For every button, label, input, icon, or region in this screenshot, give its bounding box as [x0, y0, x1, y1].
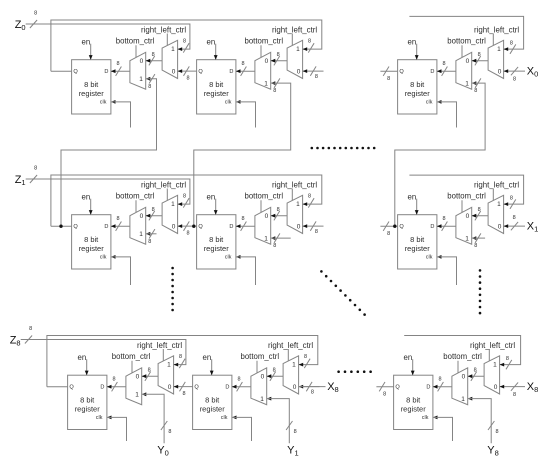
register U11 value label register — [204, 244, 230, 253]
register U88 value label 8 bit — [406, 396, 421, 405]
register U08 value label 8 bit — [410, 80, 425, 89]
mux M01b port label 0 — [265, 58, 269, 65]
wire en 08 — [415, 44, 419, 60]
mux M88r port label 0 — [494, 384, 498, 391]
svg-text:clk: clk — [100, 100, 107, 106]
bus width 8 label on M01r port 0 wire — [315, 74, 318, 80]
bus width 8 label on D wire 80 — [112, 376, 115, 382]
register U00 (8 bit register) — [72, 60, 111, 114]
svg-text:0: 0 — [494, 384, 498, 391]
svg-text:8: 8 — [116, 216, 119, 222]
bottom_ctrl label 08 — [447, 37, 486, 46]
svg-text:1: 1 — [139, 76, 143, 83]
register U80 value label register — [75, 405, 101, 414]
wire clk stub 08 — [437, 100, 457, 128]
mux M00r port label 1 — [171, 46, 175, 53]
svg-text:0: 0 — [140, 213, 144, 220]
en label 18 — [408, 192, 417, 201]
wire Z0 line to M00r port 1 — [51, 24, 190, 53]
register U81 value label 8 bit — [205, 396, 220, 405]
register U80 pin label D — [100, 385, 104, 391]
svg-text:8: 8 — [152, 52, 155, 58]
wire U11 Q to M10r port 0 — [178, 221, 197, 230]
svg-text:8: 8 — [315, 74, 318, 80]
register U10 (8 bit register) — [72, 215, 111, 269]
svg-text:8: 8 — [442, 216, 445, 222]
register U10 pin label D — [104, 224, 108, 230]
svg-text:Q: Q — [198, 69, 203, 75]
bottom_ctrl label 11 — [245, 192, 284, 201]
wire M01r port 0 dangling input — [303, 66, 324, 75]
svg-text:1: 1 — [264, 80, 268, 87]
bus width 8 label on U88 Q wire — [383, 392, 386, 398]
svg-text:bottom_ctrl: bottom_ctrl — [245, 37, 284, 46]
mux right_left_ctrl M81r — [283, 356, 299, 394]
svg-text:en: en — [408, 37, 417, 46]
svg-text:en: en — [207, 37, 216, 46]
wire bottom_ctrl select 08 — [461, 45, 463, 57]
wire Z8 bus with slash — [21, 336, 47, 344]
ellipsis dots vertical (omitted rows, left column) — [171, 267, 174, 312]
wire Z1 bus with slash — [26, 175, 51, 183]
svg-text:0: 0 — [498, 223, 502, 230]
svg-text:8: 8 — [510, 196, 513, 202]
mux M00r port label 0 — [172, 68, 176, 75]
register U01 (8 bit register) — [197, 60, 236, 114]
bus width 8 label on M00b port 1 wire — [148, 84, 151, 90]
mux M00b port label 0 — [140, 58, 144, 65]
bus width 8 label on M88r output wire 88 — [474, 368, 477, 374]
wire bottom_ctrl select 11 — [260, 200, 262, 212]
register U11 value label 8 bit — [209, 235, 224, 244]
wire mux M81b output to D of U81 — [232, 382, 251, 391]
register U00 value label 8 bit — [84, 80, 99, 89]
svg-text:1: 1 — [171, 46, 175, 53]
svg-text:8: 8 — [474, 243, 477, 249]
svg-text:en: en — [78, 353, 87, 362]
bus width 8 label on Q feedback drop row 8 — [304, 354, 307, 360]
ellipsis dots diagonal (omitted diagonal cells) — [320, 270, 366, 316]
en label 08 — [408, 37, 417, 46]
svg-text:register: register — [79, 89, 105, 98]
svg-text:right_left_ctrl: right_left_ctrl — [470, 341, 515, 350]
wire clk stub 80 — [107, 416, 127, 442]
svg-text:8: 8 — [183, 39, 186, 45]
bus width 8 label on M00r output wire 00 — [152, 52, 155, 58]
svg-text:1: 1 — [493, 362, 497, 369]
register U08 (8 bit register) — [398, 60, 437, 114]
bus width 8 label on U08 Q wire — [387, 76, 390, 82]
en label 10 — [82, 192, 91, 201]
svg-text:D: D — [430, 69, 434, 75]
wire en 11 — [214, 199, 218, 215]
svg-text:8: 8 — [315, 229, 318, 235]
register U01 value label 8 bit — [209, 80, 224, 89]
svg-text:8: 8 — [308, 39, 311, 45]
bus width 8 label on M18b port 1 wire — [474, 243, 477, 249]
wire en 80 — [85, 359, 89, 375]
svg-text:right_left_ctrl: right_left_ctrl — [474, 180, 519, 189]
bus width 8 label on D wire 10 — [116, 216, 119, 222]
svg-text:8: 8 — [510, 41, 513, 47]
register U88 pin label D — [426, 385, 430, 391]
mux M01b port label 1 — [264, 80, 268, 87]
mux M81b port label 0 — [261, 374, 265, 381]
svg-text:8: 8 — [34, 165, 37, 171]
register U10 value label 8 bit — [84, 235, 99, 244]
bus width 8 label on Z8 drop — [179, 354, 182, 360]
bus width 8 label on Q feedback drop row 0 — [308, 39, 311, 45]
svg-text:8: 8 — [112, 376, 115, 382]
svg-text:Q: Q — [73, 224, 78, 230]
wire clk stub 81 — [232, 416, 252, 442]
wire bottom_ctrl select 18 — [461, 200, 463, 212]
mux bottom_ctrl M81b — [251, 368, 267, 405]
svg-text:right_left_ctrl: right_left_ctrl — [268, 341, 313, 350]
node X0 input label — [527, 65, 539, 78]
svg-text:8: 8 — [387, 76, 390, 82]
svg-text:D: D — [104, 69, 108, 75]
wire right_left_ctrl select 88 — [488, 349, 490, 361]
mux M80b port label 0 — [136, 374, 140, 381]
node Y1 output label — [287, 445, 299, 458]
svg-text:8: 8 — [148, 239, 151, 245]
bus width 8 label on M01b port 1 wire — [273, 88, 276, 94]
right_left_ctrl label 11 — [272, 180, 317, 189]
wire M88b port 1 to Y8 output — [468, 397, 495, 444]
bus width 8 label on M81r port 0 wire — [311, 390, 314, 396]
mux M18r port label 0 — [498, 223, 502, 230]
wire mux M88b output to D of U88 — [433, 382, 452, 391]
wire M18b port 1 dangling (to omitted row) — [472, 233, 485, 242]
register U18 pin label clk — [426, 255, 433, 261]
bus width 8 label on M10b port 1 wire — [148, 239, 151, 245]
svg-text:8: 8 — [148, 368, 151, 374]
svg-text:8: 8 — [241, 216, 244, 222]
svg-text:8 bit: 8 bit — [84, 235, 99, 244]
wire bottom_ctrl select 88 — [457, 361, 459, 373]
junction dot on U11 Q wire — [192, 225, 195, 228]
svg-text:0: 0 — [466, 58, 470, 65]
bus width 8 label on D wire 01 — [241, 61, 244, 67]
node Y0 output label — [157, 445, 169, 458]
register U08 pin label clk — [426, 100, 433, 106]
svg-text:8: 8 — [495, 429, 498, 435]
svg-text:Q: Q — [399, 224, 404, 230]
bottom_ctrl label 88 — [443, 352, 482, 361]
svg-text:1: 1 — [461, 396, 465, 403]
svg-text:clk: clk — [225, 255, 232, 261]
svg-text:8: 8 — [478, 52, 481, 58]
register U88 pin label Q — [395, 385, 400, 391]
bus width 8 label on M08r output wire 08 — [478, 52, 481, 58]
svg-text:8: 8 — [152, 207, 155, 213]
svg-text:1: 1 — [296, 46, 300, 53]
svg-text:D: D — [426, 385, 430, 391]
svg-text:1: 1 — [260, 396, 264, 403]
wire en 10 — [89, 199, 93, 215]
svg-text:0: 0 — [261, 374, 265, 381]
svg-text:8: 8 — [273, 88, 276, 94]
svg-text:right_left_ctrl: right_left_ctrl — [137, 341, 182, 350]
svg-text:8: 8 — [308, 194, 311, 200]
register U08 pin label Q — [399, 69, 404, 75]
bus width 8 label on Z0 — [34, 10, 37, 16]
bus width 8 label on X0 wire — [513, 76, 516, 82]
mux M18b port label 0 — [466, 213, 470, 220]
svg-text:D: D — [229, 224, 233, 230]
svg-text:8: 8 — [183, 194, 186, 200]
bus width 8 label on U11 Q wire — [186, 231, 189, 237]
svg-text:D: D — [430, 224, 434, 230]
bus width 8 label on right-side line row 8 — [506, 356, 509, 362]
wire mux M88r output to M88b port 0 — [468, 372, 484, 381]
svg-text:8: 8 — [506, 356, 509, 362]
svg-text:8 bit: 8 bit — [80, 396, 95, 405]
mux M10b port label 0 — [140, 213, 144, 220]
wire X8 to M88r port 0 — [500, 382, 525, 390]
register U81 pin label clk — [221, 415, 228, 421]
register U10 pin label Q — [73, 224, 78, 230]
register U01 pin label D — [229, 69, 233, 75]
svg-text:8: 8 — [383, 392, 386, 398]
node Z0 input label — [15, 19, 26, 32]
wire mux M10b output to D of U10 — [111, 222, 130, 231]
svg-text:1: 1 — [139, 231, 143, 238]
mux bottom_ctrl M11b — [255, 207, 271, 244]
svg-text:8: 8 — [513, 215, 516, 221]
mux M88b port label 0 — [462, 374, 466, 381]
svg-text:8 bit: 8 bit — [209, 80, 224, 89]
svg-text:1: 1 — [292, 362, 296, 369]
bus width 8 label on U81 Q wire — [182, 391, 185, 397]
register U00 value label register — [79, 89, 105, 98]
bus width 8 label on D wire 18 — [442, 216, 445, 222]
wire M81b port 1 to Y1 output — [267, 397, 293, 444]
wire en 81 — [210, 359, 214, 375]
wire clk stub 10 — [111, 255, 131, 285]
mux M80r port label 0 — [168, 384, 172, 391]
svg-text:bottom_ctrl: bottom_ctrl — [116, 192, 155, 201]
svg-text:D: D — [225, 385, 229, 391]
register U00 pin label D — [104, 69, 108, 75]
wire mux M11b output to D of U11 — [236, 222, 255, 231]
svg-text:0: 0 — [265, 213, 269, 220]
bus width 8 label on right-side line row 0 — [510, 41, 513, 47]
svg-text:1: 1 — [171, 201, 175, 208]
mux M88r port label 1 — [493, 362, 497, 369]
junction dot on U10 Q wire — [59, 225, 62, 228]
wire M10b port 1 dangling (to omitted row) — [146, 229, 157, 238]
svg-text:8: 8 — [311, 390, 314, 396]
wire M81r port 0 dangling input — [299, 382, 320, 391]
register U80 value label 8 bit — [80, 396, 95, 405]
svg-text:D: D — [104, 224, 108, 230]
right_left_ctrl label 08 — [474, 25, 519, 34]
bottom_ctrl label 81 — [241, 352, 280, 361]
svg-text:bottom_ctrl: bottom_ctrl — [112, 352, 151, 361]
right_left_ctrl label 81 — [268, 341, 313, 350]
mux M08b port label 1 — [465, 80, 469, 87]
mux M00b port label 1 — [139, 76, 143, 83]
wire right-side line row 0 to M08r port 1 — [409, 16, 523, 53]
register U81 pin label Q — [194, 385, 199, 391]
wire mux M00b output to D of U00 — [111, 67, 130, 76]
en label 88 — [404, 353, 413, 362]
register U80 pin label Q — [69, 385, 74, 391]
right_left_ctrl label 88 — [470, 341, 515, 350]
svg-text:0: 0 — [265, 58, 269, 65]
wire clk stub 11 — [236, 255, 256, 285]
svg-text:0: 0 — [168, 384, 172, 391]
wire right_left_ctrl select 00 — [166, 34, 168, 46]
wire clk stub 00 — [111, 100, 131, 128]
bus width 8 label on Z1 — [34, 165, 37, 171]
bus width 8 label on Z0 drop — [183, 39, 186, 45]
svg-text:8: 8 — [478, 207, 481, 213]
mux M80b port label 1 — [135, 392, 139, 399]
svg-text:en: en — [82, 37, 91, 46]
mux bottom_ctrl M88b — [452, 368, 468, 405]
svg-text:8: 8 — [442, 61, 445, 67]
bottom_ctrl label 18 — [447, 192, 486, 201]
bottom_ctrl label 10 — [116, 192, 155, 201]
register U18 value label 8 bit — [410, 235, 425, 244]
wire bottom_ctrl select 00 — [135, 45, 137, 57]
mux M88b port label 1 — [461, 396, 465, 403]
svg-text:8: 8 — [438, 376, 441, 382]
bus width 8 label on Q feedback drop row 1 — [308, 194, 311, 200]
ellipsis dots vertical (omitted rows, right column) — [479, 269, 482, 314]
svg-text:8: 8 — [182, 391, 185, 397]
wire mux M08b output to D of U08 — [437, 67, 456, 76]
svg-text:Q: Q — [73, 69, 78, 75]
svg-text:bottom_ctrl: bottom_ctrl — [443, 352, 482, 361]
svg-text:8: 8 — [179, 354, 182, 360]
svg-text:1: 1 — [497, 46, 501, 53]
wire right_left_ctrl select 01 — [291, 34, 293, 46]
wire X1 to M18r port 0 — [504, 222, 525, 230]
wire M00b port 1 from U10 Q (bottom chain) — [61, 74, 157, 226]
svg-text:8: 8 — [513, 392, 516, 398]
en label 80 — [78, 353, 87, 362]
svg-text:1: 1 — [296, 201, 300, 208]
wire M08b port 1 from U18 Q (bottom chain) — [395, 78, 485, 226]
mux bottom_ctrl M18b — [456, 207, 472, 244]
mux M18b port label 1 — [465, 235, 469, 242]
wire bottom_ctrl select 01 — [260, 45, 262, 57]
wire M01b port 1 from U11 Q (bottom chain) — [194, 78, 291, 226]
wire X0 to M08r port 0 — [504, 67, 525, 75]
bus width 8 label on Y0 wire — [168, 429, 171, 435]
svg-text:bottom_ctrl: bottom_ctrl — [116, 37, 155, 46]
node Z8 input label — [10, 335, 21, 348]
mux M81b port label 1 — [260, 396, 264, 403]
svg-text:8: 8 — [186, 231, 189, 237]
svg-text:en: en — [207, 192, 216, 201]
svg-text:1: 1 — [465, 80, 469, 87]
right_left_ctrl label 18 — [474, 180, 519, 189]
node Z1 input label — [15, 174, 26, 187]
wire Q feedback line row 8 (U80 Q to M81r port 1) — [47, 336, 318, 387]
svg-text:8 bit: 8 bit — [406, 396, 421, 405]
svg-text:clk: clk — [426, 255, 433, 261]
mux M01r port label 0 — [297, 68, 301, 75]
en label 01 — [207, 37, 216, 46]
svg-text:8 bit: 8 bit — [205, 396, 220, 405]
svg-text:register: register — [405, 244, 431, 253]
node Y8 output label — [487, 445, 499, 458]
mux right_left_ctrl M08r — [488, 40, 504, 78]
register U80 pin label clk — [96, 415, 103, 421]
mux right_left_ctrl M11r — [287, 195, 303, 233]
svg-text:D: D — [229, 69, 233, 75]
bus width 8 label on M80r output wire 80 — [148, 368, 151, 374]
register U01 pin label clk — [225, 100, 232, 106]
bus width 8 label on D wire 08 — [442, 61, 445, 67]
wire right_left_ctrl select 08 — [492, 34, 494, 46]
wire Q of U08 dangling — [380, 67, 397, 76]
svg-text:clk: clk — [422, 415, 429, 421]
register U80 (8 bit register) — [68, 375, 107, 429]
svg-text:8 bit: 8 bit — [84, 80, 99, 89]
bus width 8 label on U01 Q wire — [186, 76, 189, 82]
svg-text:register: register — [75, 405, 101, 414]
wire mux M01b output to D of U01 — [236, 67, 255, 76]
svg-text:8: 8 — [304, 354, 307, 360]
svg-text:0: 0 — [172, 68, 176, 75]
register U11 pin label Q — [198, 224, 203, 230]
wire Q of U88 dangling — [376, 382, 393, 391]
node X8 mid label (input to M81r port 0) — [327, 381, 339, 394]
mux right_left_ctrl M88r — [484, 356, 500, 394]
svg-text:D: D — [100, 385, 104, 391]
svg-text:8 bit: 8 bit — [209, 235, 224, 244]
wire Q of U80 — [47, 386, 68, 388]
bus width 8 label on Y1 wire — [294, 429, 297, 435]
wire mux M80b output to D of U80 — [107, 382, 126, 391]
bus width 8 label on D wire 11 — [241, 216, 244, 222]
svg-text:clk: clk — [225, 100, 232, 106]
en label 11 — [207, 192, 216, 201]
svg-text:Q: Q — [395, 385, 400, 391]
svg-text:0: 0 — [498, 68, 502, 75]
bus width 8 label on X8 wire — [513, 392, 516, 398]
register U81 value label register — [200, 405, 226, 414]
svg-text:right_left_ctrl: right_left_ctrl — [474, 25, 519, 34]
bus width 8 label on M11r output wire 11 — [277, 207, 280, 213]
mux M80r port label 1 — [167, 362, 171, 369]
wire mux M01r output to M01b port 0 — [271, 56, 287, 65]
wire Q of U10 — [51, 225, 72, 227]
svg-text:Q: Q — [194, 385, 199, 391]
bottom_ctrl label 00 — [116, 37, 155, 46]
junction dot on U18 Q wire — [393, 225, 396, 228]
register U00 pin label clk — [100, 100, 107, 106]
mux M10r port label 0 — [172, 223, 176, 230]
mux M11b port label 1 — [264, 235, 268, 242]
mux M11r port label 1 — [296, 201, 300, 208]
mux right_left_ctrl M00r — [162, 40, 178, 78]
register U01 value label register — [204, 89, 230, 98]
svg-text:8 bit: 8 bit — [410, 235, 425, 244]
svg-text:8: 8 — [387, 231, 390, 237]
wire Q of U00 — [51, 70, 72, 72]
svg-text:0: 0 — [293, 384, 297, 391]
bus width 8 label on D wire 81 — [237, 376, 240, 382]
wire clk stub 88 — [433, 416, 453, 442]
svg-text:8: 8 — [513, 76, 516, 82]
